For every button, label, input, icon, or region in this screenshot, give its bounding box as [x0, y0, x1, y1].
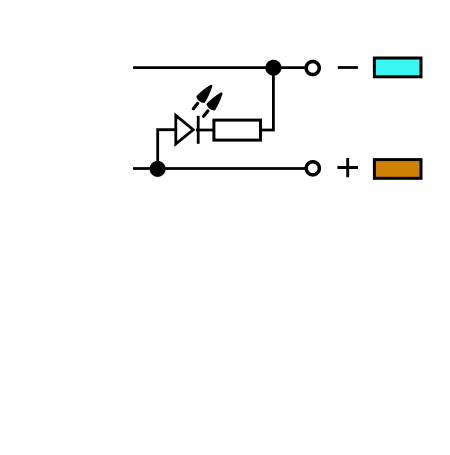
LED D1 cathode bar	[197, 116, 200, 144]
LED light emission arrow 1 (upper)	[193, 86, 211, 109]
plus sign	[337, 158, 358, 177]
wire: LED anode down to bottom junction	[158, 130, 176, 169]
terminal circle: minus clamp	[306, 61, 319, 74]
wire: LED cathode to resistor	[196, 129, 215, 132]
wire: bottom positive rail	[133, 167, 305, 170]
marker: cyan (negative)	[374, 58, 421, 77]
minus sign	[338, 66, 358, 69]
terminal circle: plus clamp	[306, 162, 319, 175]
LED D1 triangle (anode)	[176, 115, 193, 143]
marker: orange (positive)	[374, 160, 421, 179]
wire: top negative rail	[133, 66, 305, 69]
junction dot: bottom node	[150, 161, 166, 177]
resistor R1	[214, 120, 261, 140]
LED light emission arrow 2 (lower)	[204, 94, 222, 117]
wire: vertical drop from top junction to resistor	[261, 66, 274, 130]
junction dot: top node	[265, 60, 281, 76]
